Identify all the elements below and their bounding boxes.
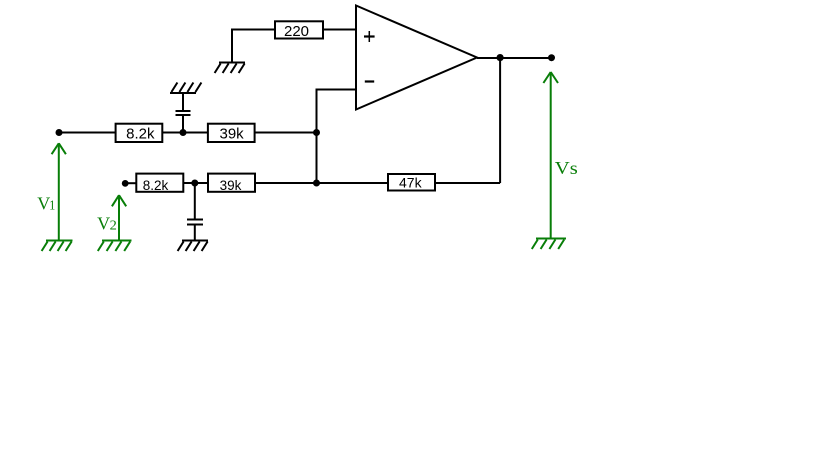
node C2 junction — [191, 180, 198, 187]
op-amp U1 — [356, 6, 477, 110]
resistor 39k (row 2) — [208, 174, 255, 193]
arrow V2 — [112, 195, 126, 239]
wire 8.2k to 39k (row 1) — [162, 132, 208, 134]
arrow Vs — [543, 72, 558, 238]
wire C1 to node — [182, 116, 184, 133]
wire 39k to inverting node — [255, 132, 317, 134]
capacitor C1 — [176, 111, 191, 115]
wire 8.2k to 39k (row 2) — [184, 182, 209, 184]
svg-text:V: V — [37, 193, 50, 213]
wire 47k to output branch — [435, 182, 500, 184]
node V2 terminal — [122, 180, 129, 187]
svg-text:39k: 39k — [220, 125, 245, 142]
wire C2 to ground — [194, 226, 196, 240]
resistor 39k (row 1) — [208, 124, 255, 143]
svg-text:39k: 39k — [220, 178, 242, 193]
svg-text:1: 1 — [49, 198, 55, 213]
node row1 / feedback junction — [313, 129, 320, 136]
svg-text:V: V — [97, 214, 110, 234]
resistor 8.2k (row 2) — [136, 174, 183, 193]
wire 39k row2 to 47k — [255, 182, 388, 184]
wire 220 to + input — [323, 29, 356, 31]
svg-text:220: 220 — [284, 23, 309, 40]
ground V2 — [98, 241, 132, 252]
label Vs — [555, 158, 578, 178]
label V2 — [97, 214, 117, 234]
node Vs terminal — [548, 54, 555, 61]
resistor 220 — [275, 21, 323, 40]
wire V2 to 8.2k (row 2) — [125, 182, 136, 184]
label V1 — [37, 193, 55, 213]
ground below C2 — [178, 241, 208, 252]
ground below 220 — [215, 63, 245, 74]
ground V1 — [42, 241, 73, 252]
node row2 junction — [313, 180, 320, 187]
svg-text:8.2k: 8.2k — [143, 178, 169, 193]
ground Vs — [532, 239, 566, 250]
svg-text:Vs: Vs — [555, 158, 578, 178]
wire V1 to 8.2k — [59, 132, 116, 134]
svg-text:47k: 47k — [399, 175, 423, 191]
wire op-amp output — [477, 57, 551, 59]
wire ground to C1 — [182, 94, 184, 110]
wire C2 node down to capacitor — [194, 183, 196, 219]
svg-text:2: 2 — [110, 219, 117, 234]
resistor 8.2k (row 1) — [116, 124, 163, 143]
wire feedback vertical — [499, 58, 501, 183]
ground (inverted) above capacitor C1 — [170, 83, 201, 94]
svg-text:8.2k: 8.2k — [126, 125, 155, 142]
capacitor C2 — [187, 220, 203, 225]
wire 220 left to ground — [232, 30, 275, 62]
arrow V1 — [52, 143, 66, 239]
resistor 47k — [388, 174, 435, 191]
node C1 junction — [180, 129, 187, 136]
node V1 terminal — [56, 129, 63, 136]
wire - input of op-amp down to row 2 — [317, 90, 357, 184]
node output junction — [497, 54, 504, 61]
